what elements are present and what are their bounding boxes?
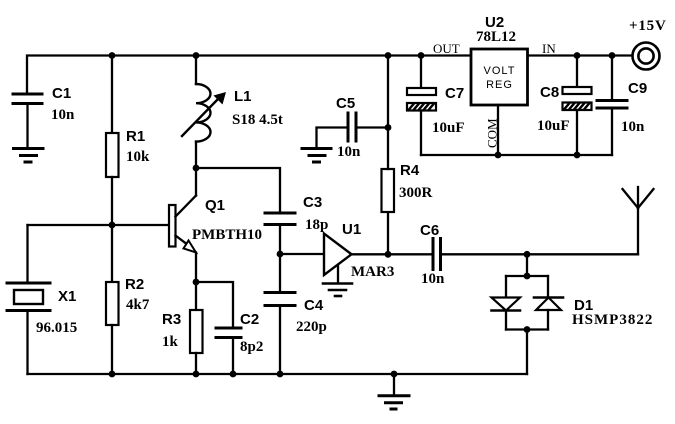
node C5/R4 [385,124,392,131]
svg-text:HSMP3822: HSMP3822 [572,312,653,328]
ground main [379,374,409,409]
svg-text:MAR3: MAR3 [351,264,394,280]
node top rail L1 [193,52,200,59]
svg-text:78L12: 78L12 [476,29,516,45]
svg-text:C3: C3 [303,194,322,211]
capacitor C7 [407,56,436,156]
svg-text:REG: REG [486,79,513,91]
ground U1 [323,284,352,297]
node bottom ground [391,371,398,378]
wire sub rail [421,154,612,156]
svg-text:S18 4.5t: S18 4.5t [232,112,283,128]
svg-text:300R: 300R [399,185,433,201]
resistor R1 [106,56,119,226]
regulator U2 [471,49,528,105]
node top rail R1 [109,52,116,59]
capacitor C3 [265,213,295,254]
wire bottom rail [28,373,528,375]
wire node to U1 [280,253,324,255]
svg-text:C4: C4 [304,297,324,314]
svg-text:COM: COM [485,118,500,148]
svg-text:C6: C6 [420,222,439,239]
svg-text:10n: 10n [421,271,445,287]
node bottom R2 [109,371,116,378]
node bottom R3 [193,371,200,378]
capacitor C5 [317,113,389,148]
wire collector to C3 [196,168,280,213]
svg-text:+15V: +15V [629,18,667,34]
node bottom C4 [277,371,284,378]
svg-text:10n: 10n [51,107,75,123]
node emitter [193,279,200,286]
wire COM [497,105,499,155]
op-amp U1 [324,234,352,284]
svg-text:VOLT: VOLT [484,65,516,77]
resistor R3 [190,282,203,374]
inductor L1 [182,56,226,169]
wire top rail left [27,56,471,95]
svg-text:IN: IN [542,41,556,56]
svg-text:4k7: 4k7 [126,297,150,313]
node base junction [109,222,116,229]
resistor R2 [106,225,119,374]
svg-text:PMBTH10: PMBTH10 [192,227,262,243]
ground C1 [14,149,44,163]
svg-text:10n: 10n [337,144,361,160]
transistor Q1 [169,168,196,282]
resistor R4 [382,56,395,255]
svg-text:R2: R2 [125,276,144,293]
svg-text:C2: C2 [240,311,259,328]
node bottom C2 [230,371,237,378]
node top rail C9 [609,52,616,59]
svg-text:96.015: 96.015 [36,320,77,336]
node sub rail C8 [574,152,581,159]
svg-text:R3: R3 [162,311,181,328]
capacitor C4 [265,254,295,374]
svg-text:18p: 18p [305,217,328,233]
node collector [193,165,200,172]
capacitor C1 [13,94,42,148]
svg-text:R1: R1 [126,128,145,145]
svg-text:10k: 10k [126,149,150,165]
svg-text:10uF: 10uF [537,118,570,134]
node COM rail [495,152,502,159]
wire base [28,224,170,226]
svg-text:Q1: Q1 [205,197,225,214]
ground C5 [302,149,331,163]
antenna [623,187,654,254]
wire U1 out [352,253,434,255]
svg-text:U1: U1 [342,221,361,238]
svg-text:C9: C9 [628,80,647,97]
capacitor C8 [563,56,592,156]
capacitor C6 [433,239,638,270]
svg-text:8p2: 8p2 [240,339,263,355]
svg-text:10uF: 10uF [432,120,465,136]
wire top rail right [528,54,633,56]
svg-text:C1: C1 [52,85,71,102]
node D1 tap [524,251,531,258]
node U1 out / R4 [385,251,392,258]
node C3/C4/U1 [277,251,284,258]
svg-text:C7: C7 [445,85,464,102]
node top rail C7 [418,52,425,59]
svg-text:C8: C8 [540,84,559,101]
node top rail R4 [385,52,392,59]
terminal +15V [633,43,660,70]
svg-text:L1: L1 [234,88,252,105]
crystal X1 [7,225,50,374]
svg-text:C5: C5 [336,95,355,112]
capacitor C2 [196,282,241,374]
capacitor C9 [597,56,627,156]
svg-text:X1: X1 [58,288,76,305]
svg-text:R4: R4 [400,162,420,179]
svg-text:220p: 220p [296,319,327,335]
svg-text:OUT: OUT [433,41,460,56]
svg-text:1k: 1k [162,334,179,350]
svg-text:10n: 10n [621,119,645,135]
node top rail C8 [574,52,581,59]
diode pair D1 [492,254,564,374]
